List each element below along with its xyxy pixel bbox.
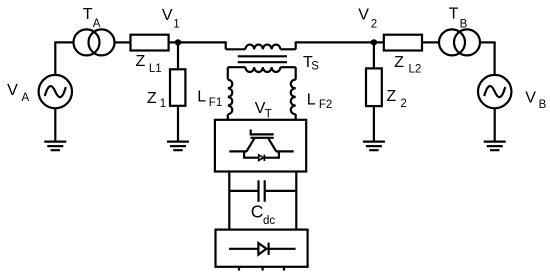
svg-text:2: 2 (400, 98, 406, 110)
svg-text:T: T (449, 6, 459, 23)
svg-text:F1: F1 (209, 97, 222, 109)
svg-text:2: 2 (371, 18, 377, 30)
svg-text:Z: Z (136, 53, 146, 70)
svg-text:L2: L2 (409, 64, 422, 76)
svg-text:L: L (197, 88, 206, 105)
svg-text:B: B (460, 19, 468, 31)
svg-text:B: B (539, 99, 547, 111)
svg-text:T: T (83, 6, 93, 23)
svg-text:Z: Z (394, 54, 404, 71)
svg-text:Z: Z (386, 88, 396, 105)
svg-text:Z: Z (147, 90, 157, 107)
svg-text:dc: dc (263, 215, 275, 227)
svg-text:L: L (307, 92, 316, 109)
svg-text:V: V (162, 7, 173, 24)
svg-text:V: V (7, 82, 18, 99)
svg-text:V: V (525, 89, 536, 106)
svg-text:L1: L1 (149, 63, 162, 75)
svg-text:S: S (311, 61, 319, 73)
svg-text:A: A (22, 92, 30, 104)
svg-text:1: 1 (173, 18, 179, 30)
svg-text:T: T (265, 109, 272, 121)
svg-text:F2: F2 (319, 99, 332, 111)
svg-text:C: C (251, 202, 264, 222)
svg-text:V: V (358, 7, 369, 24)
svg-text:1: 1 (160, 98, 166, 110)
svg-text:A: A (93, 18, 101, 30)
